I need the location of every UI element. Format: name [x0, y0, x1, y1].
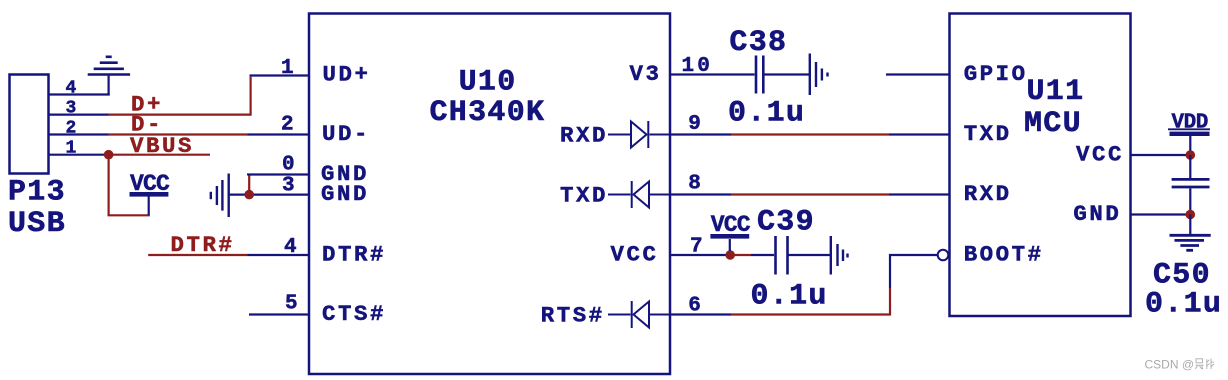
VCC power port bar [130, 192, 169, 197]
pin 4 wire (USB shield to ground) [49, 93, 110, 95]
wire TXD to RXD (navy-red-navy) [670, 193, 731, 195]
wire to U10 pin 4 [248, 254, 310, 256]
VCC power port stem [148, 197, 150, 216]
BOOT# inversion bubble [938, 250, 949, 261]
svg-text:DTR#: DTR# [322, 242, 386, 268]
wire to U11 TXD [889, 133, 950, 135]
capacitor C39 plates [776, 236, 788, 275]
wire U11 VCC [1131, 154, 1191, 156]
wire to U11 RXD [889, 193, 950, 195]
svg-text:MCU: MCU [1024, 107, 1082, 141]
wire to U10 pin 5 (CTS#) [249, 313, 309, 315]
signal ground (GND net, bars fading left) [211, 174, 229, 218]
svg-text:5: 5 [285, 292, 301, 315]
svg-text:VBUS: VBUS [130, 133, 194, 159]
junction GND (C50) [1186, 210, 1196, 220]
wire to C39 [751, 254, 774, 256]
svg-text:GND: GND [1073, 201, 1121, 227]
svg-text:RTS#: RTS# [541, 302, 605, 328]
wire (red segment) [731, 193, 889, 195]
svg-text:3: 3 [66, 99, 77, 119]
signal ground (C39, bars fading right) [831, 236, 848, 275]
svg-text:8: 8 [688, 173, 704, 196]
wire C50 down to GND junction [1189, 188, 1191, 214]
svg-text:0.1u: 0.1u [728, 96, 805, 130]
VCC power port stem [729, 239, 731, 251]
svg-text:2: 2 [281, 114, 297, 137]
connector P13 body [10, 75, 49, 174]
wire junction up (red) [248, 176, 250, 192]
svg-text:0.1u: 0.1u [751, 280, 828, 314]
svg-text:9: 9 [688, 113, 704, 136]
svg-text:10: 10 [682, 55, 714, 78]
diode on TXD (pointing left) [608, 181, 670, 208]
wire VCC pin 7 [670, 254, 726, 256]
svg-text:U10: U10 [459, 66, 517, 100]
svg-text:7: 7 [690, 236, 706, 259]
signal ground (V3, bars fading right) [810, 54, 828, 96]
wire DTR# (red) [148, 254, 247, 256]
ground stem [107, 75, 109, 95]
VDD power port underline [1168, 128, 1210, 130]
wire (red segment) [731, 288, 890, 315]
svg-text:UD+: UD+ [323, 61, 371, 87]
VDD power port bar [1170, 132, 1210, 136]
wire C38 to ground [765, 73, 810, 75]
svg-text:TXD: TXD [560, 182, 608, 208]
wire (red segment) [735, 254, 752, 256]
wire VDD junction down to C50 [1189, 155, 1191, 178]
wire (red segment) [731, 133, 889, 135]
capacitor C38 plates [756, 56, 763, 94]
svg-text:VCC: VCC [611, 242, 659, 268]
svg-text:4: 4 [284, 236, 300, 259]
diode on RXD (pointing right) [608, 121, 670, 148]
wire to U10 GND pin 0 [248, 175, 309, 176]
svg-text:TXD: TXD [964, 121, 1012, 147]
junction VCC [725, 250, 735, 260]
watermark hanzi 易板 (drawn) [1195, 358, 1214, 369]
svg-text:P13: P13 [8, 176, 66, 210]
svg-text:VCC: VCC [130, 171, 170, 197]
wire RXD to TXD (navy-red-navy) [670, 133, 731, 135]
ground (C50) [1170, 235, 1211, 250]
wire D- (red) [109, 133, 248, 135]
wire VBUS (red) [109, 154, 210, 156]
svg-text:CSDN @: CSDN @ [1145, 358, 1195, 372]
svg-text:GND: GND [321, 181, 369, 207]
svg-text:DTR#: DTR# [171, 232, 235, 258]
pin 1 wire stub (navy) [49, 154, 105, 156]
wire C39 to ground [789, 254, 831, 256]
junction VBUS [104, 150, 114, 160]
junction GND [244, 190, 254, 200]
svg-text:CH340K: CH340K [430, 96, 546, 130]
VCC power port bar [710, 234, 749, 239]
svg-text:VCC: VCC [711, 212, 751, 238]
wire to U11 GPIO [886, 73, 950, 75]
ground (inverted, bars up) [88, 57, 130, 75]
svg-text:3: 3 [282, 175, 298, 198]
wire VBUS down to VCC (red) [109, 155, 150, 216]
pin 3 wire stub (navy) [49, 113, 109, 115]
svg-text:GPIO: GPIO [964, 61, 1028, 87]
junction VDD [1186, 150, 1196, 160]
wire up to BOOT# [890, 255, 937, 288]
svg-text:USB: USB [8, 207, 66, 241]
svg-text:0: 0 [282, 153, 298, 176]
wire to U10 pin 1 [250, 74, 310, 76]
wire to U10 pin 2 [248, 133, 310, 135]
svg-text:0.1u: 0.1u [1145, 288, 1222, 322]
wire D+ (red) [109, 77, 251, 115]
svg-text:C39: C39 [757, 206, 815, 240]
svg-text:VDD: VDD [1172, 112, 1208, 135]
svg-text:UD-: UD- [322, 121, 370, 147]
op chip U10 body [309, 14, 670, 375]
svg-text:RXD: RXD [964, 181, 1012, 207]
pin 2 wire stub (navy) [49, 133, 109, 135]
wire V3 pin 10 to C38 [670, 73, 755, 75]
wire RTS# pin 6 [670, 313, 731, 315]
wire ground to U10 GND pin 3 [229, 194, 309, 196]
diode on RTS# (pointing left) [608, 301, 670, 328]
svg-text:4: 4 [66, 79, 77, 99]
svg-text:1: 1 [66, 139, 77, 159]
svg-text:C38: C38 [729, 26, 787, 60]
svg-text:CTS#: CTS# [322, 301, 386, 327]
svg-text:2: 2 [66, 119, 77, 139]
svg-text:U11: U11 [1027, 75, 1085, 109]
mcu U11 body [950, 14, 1131, 317]
wire down to ground [1189, 215, 1191, 236]
svg-text:BOOT#: BOOT# [964, 242, 1044, 268]
svg-text:RXD: RXD [560, 122, 608, 148]
capacitor C50 plates [1172, 179, 1210, 187]
svg-text:1: 1 [281, 57, 297, 80]
svg-text:VCC: VCC [1076, 142, 1124, 168]
svg-text:V3: V3 [630, 61, 662, 87]
wire U11 GND [1131, 213, 1191, 215]
VDD power port stem [1189, 135, 1191, 151]
